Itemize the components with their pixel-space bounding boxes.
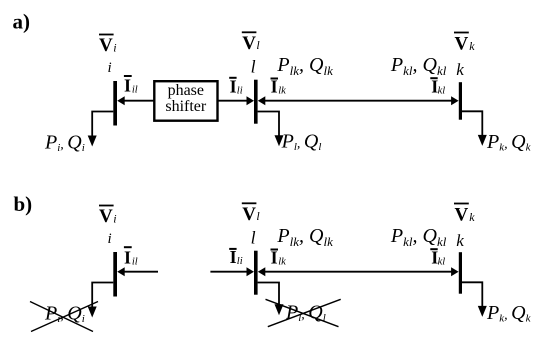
svg-text:b): b) bbox=[14, 192, 33, 216]
transmission line l-k (b) bbox=[264, 271, 453, 273]
current label I_li (a) bbox=[229, 77, 243, 97]
voltage label V_i (b) bbox=[99, 206, 117, 228]
bus bar k (b) bbox=[459, 252, 462, 294]
svg-text:i: i bbox=[113, 40, 116, 54]
svg-text:phase: phase bbox=[168, 82, 204, 99]
stub wire into bus l (b) bbox=[210, 271, 248, 273]
arrowhead I_li into bus l bbox=[247, 96, 255, 105]
svg-text:kl: kl bbox=[438, 256, 446, 267]
svg-text:I: I bbox=[230, 247, 237, 267]
load line bus i (b) bbox=[92, 283, 113, 308]
load line bus k (a) bbox=[462, 111, 482, 135]
load line bus l (a) bbox=[258, 112, 279, 137]
svg-text:l: l bbox=[251, 57, 256, 77]
load arrowhead bus k (a) bbox=[478, 135, 487, 146]
svg-text:V: V bbox=[455, 34, 469, 55]
wire bus i to phase shifter bbox=[122, 100, 154, 102]
current label I_lk (b) bbox=[271, 248, 287, 268]
svg-text:k: k bbox=[469, 210, 475, 224]
svg-text:i: i bbox=[108, 60, 112, 76]
svg-text:k: k bbox=[456, 231, 464, 250]
load arrowhead bus i (b) bbox=[88, 307, 97, 318]
arrowhead I_li into bus l (b) bbox=[247, 267, 255, 276]
svg-text:i: i bbox=[108, 231, 112, 247]
svg-text:li: li bbox=[237, 256, 243, 267]
svg-text:il: il bbox=[132, 256, 138, 267]
cross-out X over P_l, Q_l bbox=[266, 299, 341, 326]
svg-text:lk: lk bbox=[278, 86, 286, 97]
svg-text:kl: kl bbox=[438, 85, 446, 96]
phase shifter U1 bbox=[154, 81, 217, 121]
svg-text:I: I bbox=[124, 76, 131, 96]
current label I_li (b) bbox=[229, 247, 243, 267]
current label I_il (b) bbox=[124, 247, 138, 267]
wire phase shifter to bus l bbox=[217, 100, 248, 102]
arrowhead I_lk into bus l bbox=[258, 96, 266, 105]
bus bar i (b) bbox=[113, 252, 117, 297]
arrowhead I_lk into bus l (b) bbox=[258, 267, 266, 276]
svg-text:k: k bbox=[469, 39, 475, 53]
current label I_lk (a) bbox=[271, 77, 287, 97]
transmission line l-k (a) bbox=[264, 100, 453, 102]
voltage label V_l (b) bbox=[242, 203, 261, 225]
svg-text:V: V bbox=[242, 204, 256, 225]
load line bus i (a) bbox=[92, 112, 113, 137]
load arrowhead bus l (a) bbox=[275, 135, 284, 146]
svg-text:a): a) bbox=[13, 10, 31, 34]
svg-text:I: I bbox=[230, 77, 237, 97]
svg-text:lk: lk bbox=[278, 257, 286, 268]
bus bar i (a) bbox=[113, 81, 117, 126]
svg-text:il: il bbox=[132, 85, 138, 96]
load line bus k (b) bbox=[462, 282, 482, 306]
load arrowhead bus i (a) bbox=[88, 136, 97, 147]
voltage label V_k (b) bbox=[454, 204, 475, 226]
voltage label V_l bbox=[242, 32, 261, 54]
bus bar l (b) bbox=[254, 251, 258, 295]
current label I_kl (a) bbox=[430, 77, 445, 97]
svg-text:V: V bbox=[455, 205, 469, 226]
svg-text:I: I bbox=[124, 247, 131, 267]
arrowhead I_il into bus i (b) bbox=[117, 267, 125, 276]
cross-out X over P_i, Q_i bbox=[30, 302, 98, 332]
load arrowhead bus k (b) bbox=[478, 306, 487, 317]
load line bus l (b) bbox=[258, 283, 279, 306]
svg-text:V: V bbox=[242, 33, 256, 54]
arrowhead I_kl into bus k bbox=[451, 96, 459, 105]
arrowhead I_kl into bus k (b) bbox=[451, 267, 459, 276]
current label I_kl (b) bbox=[430, 248, 445, 268]
bus bar l (a) bbox=[254, 80, 258, 124]
stub wire at bus i (b) bbox=[122, 271, 158, 273]
svg-text:shifter: shifter bbox=[165, 98, 207, 115]
bus bar k (a) bbox=[459, 82, 462, 120]
current label I_il (a) bbox=[124, 76, 138, 96]
arrowhead I_il into bus i bbox=[117, 96, 125, 105]
svg-text:i: i bbox=[113, 211, 116, 225]
voltage label V_k bbox=[454, 33, 475, 55]
svg-text:l: l bbox=[251, 228, 256, 248]
svg-text:li: li bbox=[237, 86, 243, 97]
svg-text:k: k bbox=[456, 60, 464, 79]
svg-text:V: V bbox=[99, 206, 113, 227]
svg-text:V: V bbox=[99, 35, 113, 56]
voltage label V_i bbox=[99, 35, 117, 57]
load arrowhead bus l (b) bbox=[275, 304, 284, 315]
